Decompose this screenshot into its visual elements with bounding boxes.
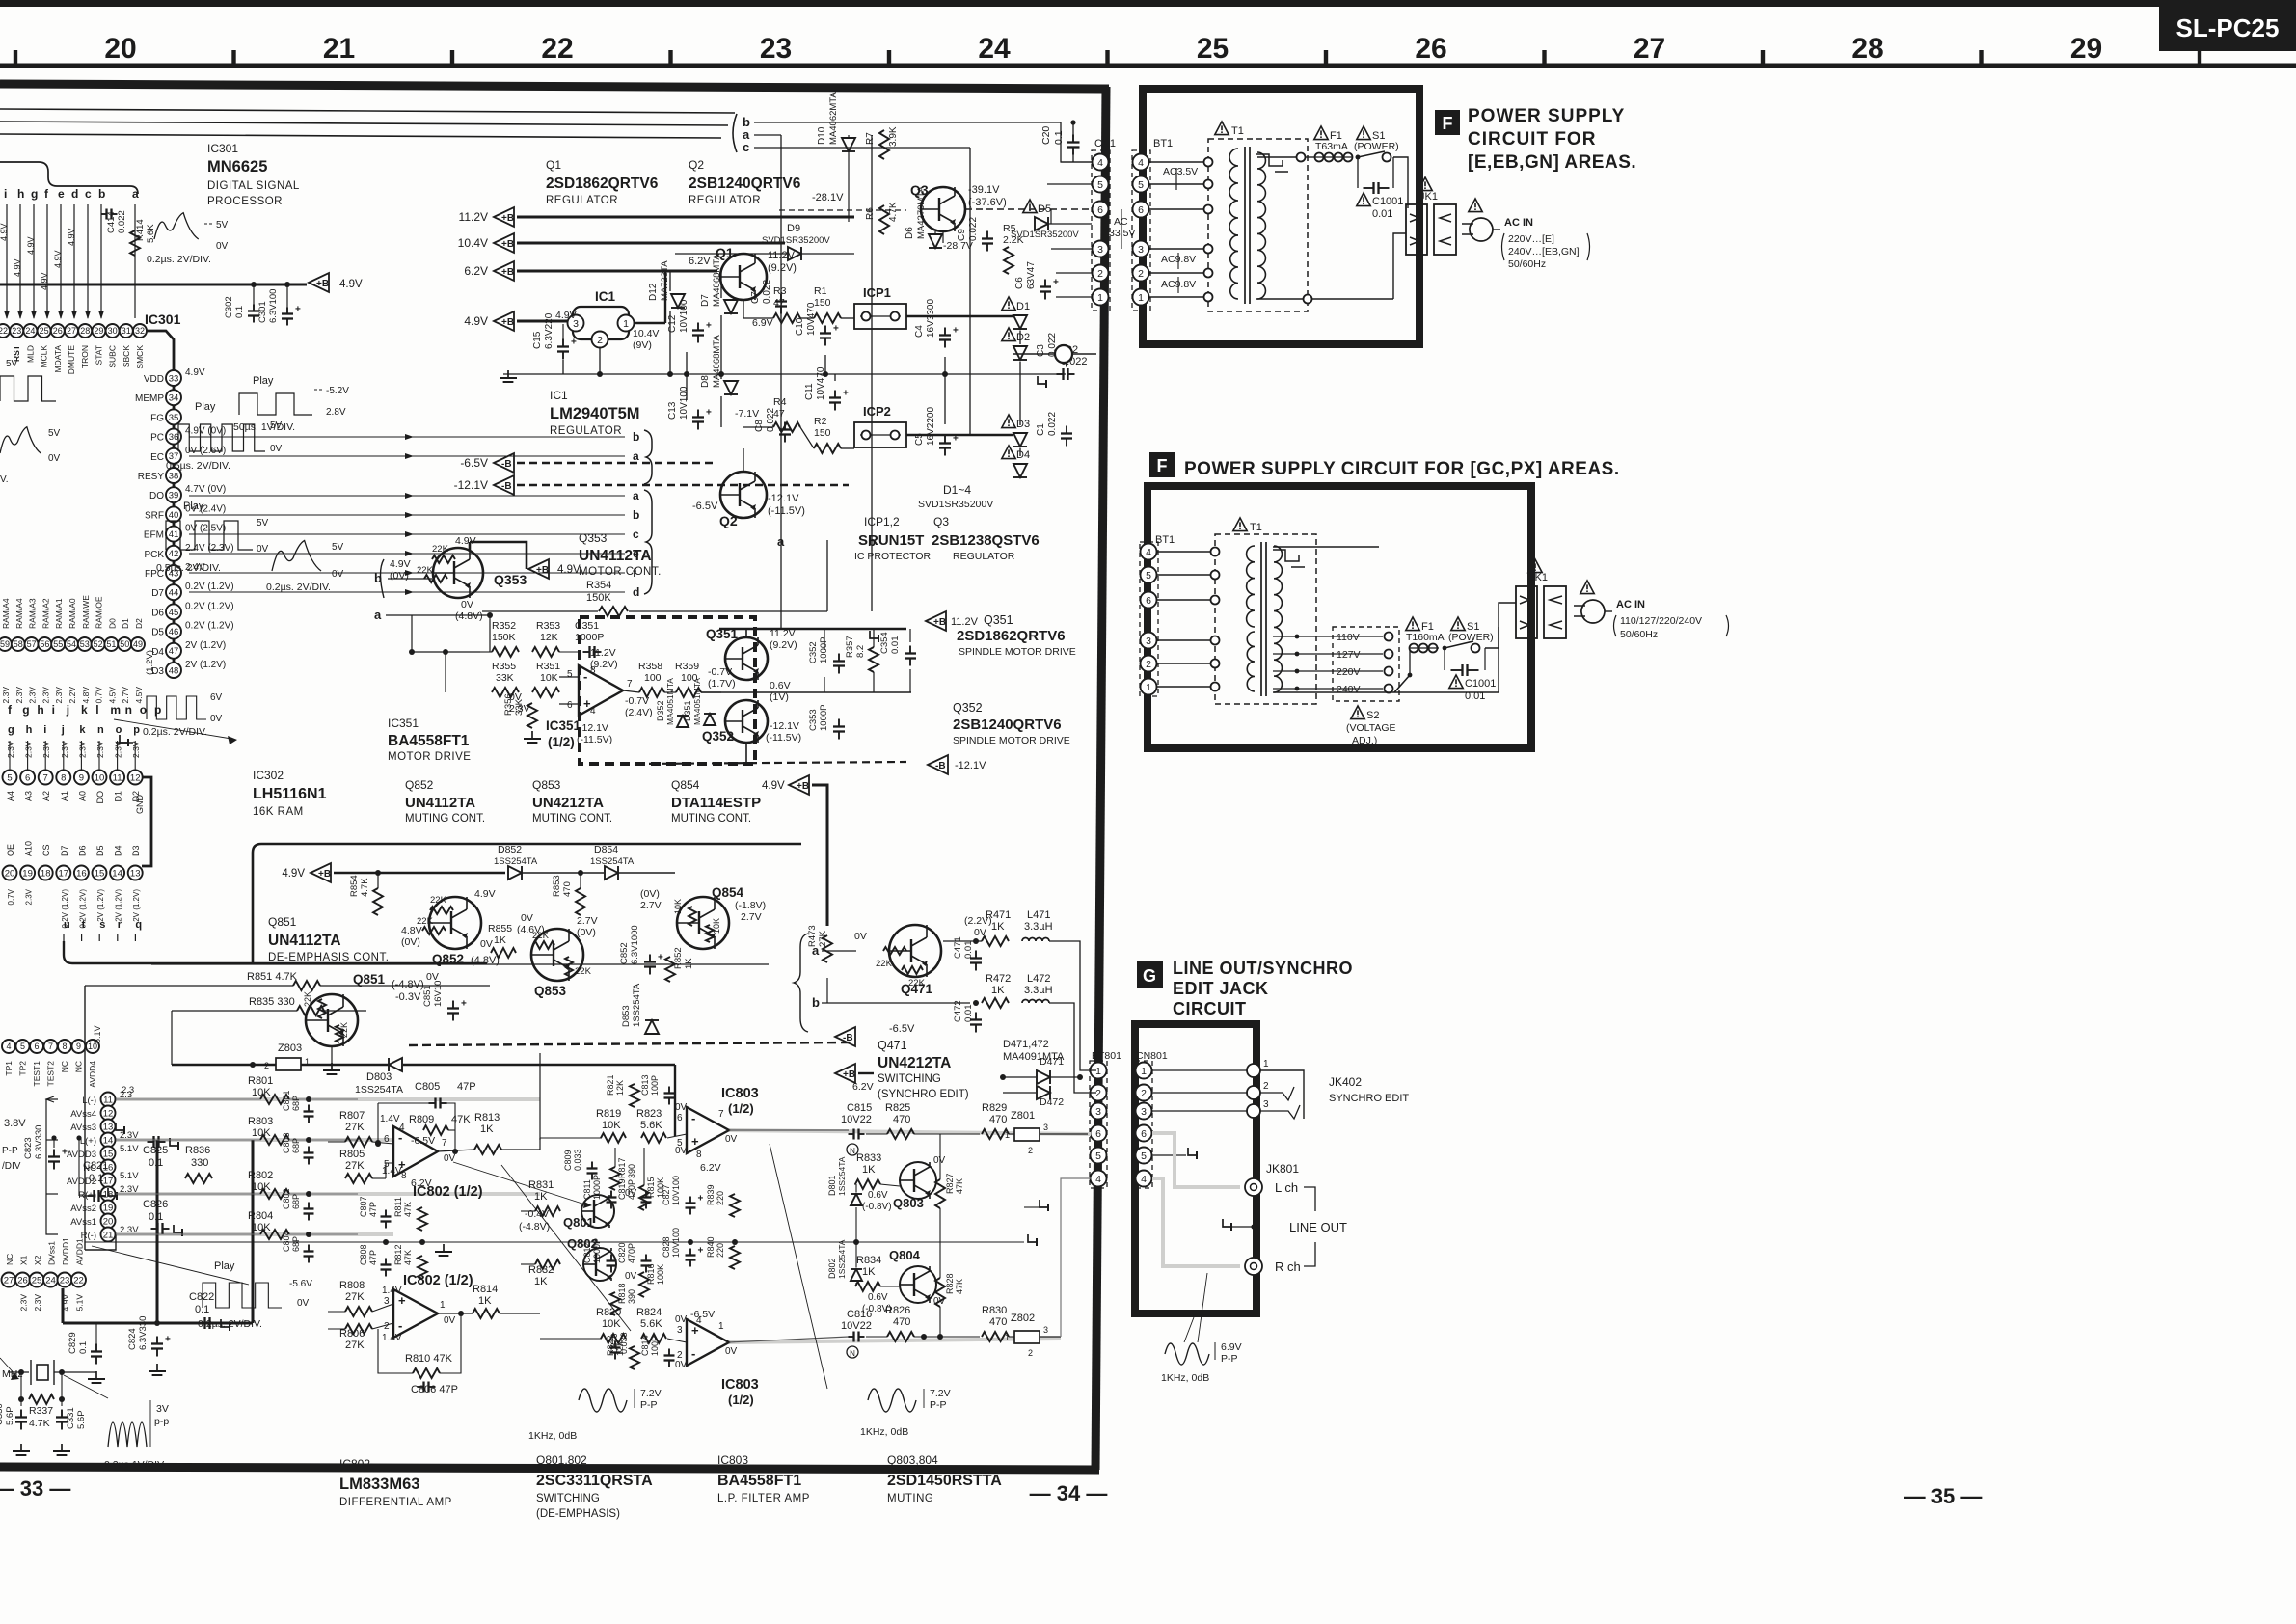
BT1 dashed column 2 — [1140, 542, 1158, 696]
svg-text:UN4112TA: UN4112TA — [579, 548, 652, 564]
svg-text:D5: D5 — [95, 845, 105, 856]
svg-text:CS: CS — [41, 844, 51, 856]
svg-text:2: 2 — [1095, 1088, 1101, 1099]
svg-text:27K: 27K — [345, 1340, 365, 1351]
BT801 wires left — [1091, 1069, 1096, 1071]
Q804 — [900, 1266, 936, 1303]
svg-text:0.2µs. 2V/DIV.: 0.2µs. 2V/DIV. — [266, 582, 331, 593]
svg-text:C808: C808 — [359, 1244, 368, 1265]
IC301 pin 45 — [166, 604, 181, 619]
svg-text:Q803: Q803 — [893, 1196, 924, 1210]
svg-text:2.8V: 2.8V — [326, 407, 346, 418]
svg-text:C1001: C1001 — [1465, 678, 1496, 690]
wire — [1149, 296, 1208, 298]
power box 1 frame — [1143, 89, 1419, 344]
svg-text:X1: X1 — [19, 1255, 29, 1265]
svg-text:27K: 27K — [345, 1291, 365, 1303]
svg-text:55: 55 — [53, 639, 63, 649]
svg-text:DVDD1: DVDD1 — [61, 1237, 70, 1265]
bus under RAM2 — [84, 985, 86, 987]
svg-text:+B: +B — [501, 317, 514, 328]
svg-text:3.9K: 3.9K — [888, 126, 899, 147]
svg-text:+: + — [698, 1194, 704, 1204]
IC pin 14 — [101, 1133, 116, 1148]
wire — [1149, 272, 1208, 274]
svg-text:C7: C7 — [750, 291, 761, 304]
IC1 pin1 — [618, 315, 635, 332]
svg-text:D10: D10 — [817, 126, 827, 145]
svg-text:ADJ.): ADJ.) — [1352, 735, 1377, 746]
svg-text:0.022: 0.022 — [1047, 412, 1058, 436]
main border right — [1095, 87, 1106, 1470]
svg-text:C823: C823 — [23, 1137, 34, 1159]
svg-text:7: 7 — [718, 1109, 724, 1120]
svg-text:R811: R811 — [393, 1197, 403, 1217]
svg-text:+B: +B — [501, 239, 514, 250]
svg-text:2.3V: 2.3V — [24, 741, 34, 758]
svg-text:6: 6 — [1095, 1128, 1101, 1140]
svg-text:RAM/A2: RAM/A2 — [41, 598, 50, 629]
svg-text:5.6P: 5.6P — [76, 1410, 87, 1429]
svg-text:L471: L471 — [1027, 909, 1050, 921]
svg-text:6: 6 — [1138, 204, 1144, 216]
wire opamp in — [573, 691, 579, 693]
Q353 4.9V tri — [528, 559, 549, 579]
svg-text:BA4558FT1: BA4558FT1 — [388, 733, 470, 749]
svg-text:-5.2V: -5.2V — [326, 386, 349, 396]
svg-text:R828: R828 — [945, 1273, 955, 1294]
signal brace2 — [644, 490, 652, 594]
label G block — [1137, 961, 1163, 988]
svg-text:2SD1450RSTTA: 2SD1450RSTTA — [887, 1473, 1002, 1489]
wire — [27, 741, 29, 770]
svg-text:57: 57 — [27, 639, 37, 649]
svg-text:C801: C801 — [282, 1090, 291, 1111]
IC pin 22 — [71, 1273, 86, 1287]
transistor Q353 — [433, 548, 483, 598]
wire to JK1 2 — [1485, 603, 1516, 648]
svg-text:47P: 47P — [368, 1250, 378, 1265]
svg-text:17: 17 — [103, 1176, 114, 1186]
annotation diagonal 3 — [453, 1162, 588, 1205]
svg-text:5.6K: 5.6K — [640, 1120, 662, 1131]
IC301 pin 47 — [166, 643, 181, 659]
svg-text:j: j — [66, 703, 69, 717]
svg-text:2SD1862QRTV6: 2SD1862QRTV6 — [957, 628, 1066, 644]
svg-text:2.3V: 2.3V — [41, 687, 50, 704]
svg-text:R824: R824 — [636, 1307, 662, 1318]
svg-text:(9.2V): (9.2V) — [590, 659, 618, 670]
screen trace g1 — [1152, 1133, 1240, 1187]
svg-text:+: + — [953, 326, 959, 337]
svg-text:5.6K: 5.6K — [146, 224, 156, 243]
T1(2) label — [1233, 518, 1247, 531]
svg-text:(9.2V): (9.2V) — [768, 262, 797, 274]
connector BT1(2) pin 4 — [1141, 544, 1157, 560]
svg-text:470: 470 — [562, 881, 573, 897]
svg-text:27: 27 — [4, 1275, 14, 1286]
wire c-CN1 — [1061, 122, 1092, 162]
G box frame — [1135, 1024, 1256, 1313]
svg-text:1: 1 — [1263, 1059, 1269, 1069]
ruler tick — [1324, 50, 1328, 66]
IC301 pin 23 — [10, 324, 23, 338]
IC pin 12 — [101, 1106, 116, 1121]
screen trace out2 — [729, 1339, 1061, 1342]
wire — [63, 741, 65, 770]
svg-text:+: + — [698, 1246, 704, 1257]
Q803 — [900, 1162, 936, 1199]
wire b-BT801 — [1068, 941, 1091, 1070]
svg-text:0.5µs. 2V/DIV.: 0.5µs. 2V/DIV. — [156, 562, 221, 574]
svg-text:R808: R808 — [339, 1280, 365, 1291]
svg-text:1.4V: 1.4V — [382, 1286, 402, 1296]
svg-text:10V100: 10V100 — [671, 1176, 681, 1205]
svg-text:BT1: BT1 — [1153, 138, 1173, 149]
wire Q351 collector — [745, 629, 747, 637]
svg-text:C805: C805 — [415, 1081, 440, 1093]
svg-text:10.4V: 10.4V — [458, 236, 488, 250]
svg-text:2.3V: 2.3V — [14, 687, 24, 704]
transformer tap 2 — [1211, 571, 1220, 580]
connector CN1 pin 1 — [1093, 289, 1109, 306]
svg-text:470P: 470P — [627, 1179, 636, 1200]
svg-text:D351: D351 — [683, 700, 692, 721]
svg-text:Q803,804: Q803,804 — [887, 1453, 938, 1467]
svg-text:(-11.5V): (-11.5V) — [766, 732, 801, 744]
diode D2 — [1002, 328, 1015, 341]
IC302 pin 9 — [74, 771, 89, 785]
wire Q352 collector dashed — [745, 743, 747, 762]
transformer tap — [1204, 269, 1213, 278]
svg-text:D7: D7 — [60, 845, 69, 856]
connector BT801 pin 3 — [1091, 1103, 1107, 1120]
svg-text:REGULATOR: REGULATOR — [953, 551, 1015, 562]
annotation arrows — [1184, 1317, 1194, 1342]
svg-text:2: 2 — [384, 1321, 390, 1332]
svg-text:35: 35 — [169, 413, 179, 423]
svg-text:C802: C802 — [282, 1188, 291, 1209]
Z803 bus — [172, 1064, 276, 1066]
svg-text:220: 220 — [716, 1191, 725, 1205]
IC301 pin 51 — [104, 637, 118, 651]
svg-text:ICP1,2: ICP1,2 — [864, 515, 900, 528]
wire pin6 to Lch — [1152, 1133, 1240, 1187]
svg-text:R853: R853 — [552, 875, 562, 897]
svg-text:Q854: Q854 — [712, 885, 744, 900]
svg-text:u: u — [64, 919, 70, 931]
svg-text:C471: C471 — [953, 936, 963, 959]
svg-text:+: + — [706, 408, 712, 419]
transformer primary winding — [1229, 149, 1238, 235]
svg-text:29: 29 — [2070, 33, 2102, 65]
svg-text:3: 3 — [1097, 244, 1103, 256]
svg-text:REGULATOR: REGULATOR — [689, 195, 761, 206]
svg-text:5: 5 — [1141, 1150, 1147, 1162]
svg-text:(VOLTAGE: (VOLTAGE — [1346, 722, 1396, 734]
svg-text:0.7V: 0.7V — [7, 888, 15, 905]
Q854 resistors — [689, 907, 696, 926]
svg-text:10K: 10K — [540, 672, 558, 684]
svg-text:-6.5V: -6.5V — [460, 456, 488, 470]
transformer tap 2 — [1211, 596, 1220, 605]
svg-text:26: 26 — [53, 326, 63, 336]
ruler tick — [2198, 50, 2201, 66]
top edge bar — [0, 0, 2296, 7]
svg-text:2.3V: 2.3V — [1, 687, 11, 704]
svg-text:27: 27 — [1634, 33, 1665, 65]
svg-text:4.9V: 4.9V — [474, 888, 496, 900]
svg-text:MA4051MTA: MA4051MTA — [665, 678, 675, 725]
svg-text:n: n — [125, 703, 132, 717]
svg-text:C816: C816 — [847, 1309, 872, 1320]
svg-text:p-p: p-p — [154, 1416, 169, 1427]
svg-text:MA4270MTA: MA4270MTA — [916, 186, 927, 239]
svg-text:R358: R358 — [638, 661, 662, 672]
svg-text:Q853: Q853 — [532, 778, 561, 792]
svg-text:UN4212TA: UN4212TA — [878, 1055, 951, 1071]
svg-text:R801: R801 — [248, 1075, 273, 1087]
label F2 block — [1149, 452, 1175, 477]
svg-text:RAM/A4: RAM/A4 — [14, 598, 24, 629]
svg-text:6.3V330: 6.3V330 — [138, 1316, 149, 1350]
svg-text:11: 11 — [113, 772, 122, 783]
svg-text:(-4.8V): (-4.8V) — [519, 1221, 550, 1232]
svg-text:C15: C15 — [532, 331, 543, 349]
svg-text:R826: R826 — [885, 1305, 910, 1316]
spindle +B — [926, 611, 946, 631]
svg-text:IC PROTECTOR: IC PROTECTOR — [854, 551, 932, 562]
connector CN801 pin 4 — [1136, 1171, 1152, 1187]
Q471 res — [883, 947, 906, 955]
svg-text:8: 8 — [401, 1171, 407, 1181]
CN801 dashed column — [1135, 1061, 1152, 1188]
svg-text:23: 23 — [12, 326, 21, 336]
connector BT1 pin 4 — [1133, 154, 1149, 171]
svg-text:AVss4: AVss4 — [70, 1109, 96, 1120]
svg-text:27: 27 — [67, 326, 76, 336]
svg-text:5V: 5V — [216, 220, 229, 230]
IC1 pin3 — [568, 315, 584, 332]
svg-text:X2: X2 — [33, 1255, 42, 1265]
big sine — [108, 1422, 147, 1447]
svg-text:24: 24 — [45, 1275, 56, 1286]
IC302 pin 5 — [3, 771, 17, 785]
svg-text:6.2V: 6.2V — [689, 256, 711, 267]
svg-text:R830: R830 — [982, 1305, 1007, 1316]
svg-text:D8: D8 — [700, 375, 711, 388]
svg-text:ICP1: ICP1 — [863, 285, 891, 300]
svg-text:12K: 12K — [615, 1340, 625, 1356]
svg-text:CN801: CN801 — [1136, 1050, 1168, 1062]
svg-text:MUTING: MUTING — [887, 1493, 933, 1504]
wire — [9, 741, 11, 770]
wire — [44, 741, 46, 770]
svg-text:SRF: SRF — [145, 510, 164, 521]
svg-text:IC802 (1/2): IC802 (1/2) — [413, 1184, 483, 1200]
svg-text:(9.2V): (9.2V) — [770, 639, 797, 651]
svg-text:D2: D2 — [134, 618, 144, 629]
svg-text:NC: NC — [60, 1061, 69, 1072]
svg-text:0.7V: 0.7V — [95, 687, 104, 704]
transformer T1(2) box — [1215, 534, 1316, 704]
svg-text:47: 47 — [773, 408, 785, 420]
svg-text:D12: D12 — [648, 283, 659, 301]
svg-text:D7: D7 — [151, 588, 164, 599]
IC1 body — [573, 307, 629, 339]
svg-text:h: h — [26, 724, 33, 736]
svg-text:A3: A3 — [24, 791, 34, 801]
svg-text:7: 7 — [627, 679, 633, 690]
resistor R6 — [879, 205, 889, 234]
svg-text:3: 3 — [1138, 244, 1144, 256]
svg-text:50/60Hz: 50/60Hz — [1508, 258, 1546, 270]
svg-text:47P: 47P — [368, 1202, 378, 1217]
label F1 block — [1435, 110, 1460, 135]
thermal fuse — [1256, 154, 1283, 166]
transistor Q851 — [306, 994, 358, 1046]
svg-text:470: 470 — [989, 1316, 1007, 1328]
svg-text:390: 390 — [627, 1289, 636, 1304]
Q851 gnd — [331, 1046, 333, 1066]
4.9V rail — [0, 284, 307, 286]
svg-text:IC1: IC1 — [550, 389, 568, 402]
svg-text:59: 59 — [0, 639, 10, 649]
IC301 pin 44 — [166, 584, 181, 600]
signal wire e — [189, 553, 625, 555]
svg-text:d: d — [71, 187, 78, 201]
wire to Z803 area — [826, 978, 828, 1003]
svg-text:C12: C12 — [667, 314, 678, 333]
svg-text:3: 3 — [1146, 636, 1151, 647]
svg-text:MCLK: MCLK — [40, 345, 49, 368]
line out bracket — [1304, 1187, 1315, 1211]
resistor R7 — [879, 130, 889, 159]
jack JK402 terminal 1 — [1152, 1069, 1248, 1071]
svg-text:52: 52 — [94, 639, 103, 649]
svg-text:6: 6 — [25, 772, 30, 783]
svg-text:[E,EB,GN] AREAS.: [E,EB,GN] AREAS. — [1468, 152, 1636, 173]
transistor Q853 — [531, 929, 583, 981]
RAM bus — [142, 777, 151, 866]
svg-text:0.1: 0.1 — [89, 1173, 103, 1184]
svg-text:0.5µs. 2V/DIV.: 0.5µs. 2V/DIV. — [166, 460, 230, 472]
svg-text:D6: D6 — [77, 845, 87, 856]
svg-text:4.9V: 4.9V — [185, 367, 205, 378]
svg-text:C828: C828 — [662, 1236, 671, 1258]
connector BT1(2) pin 2 — [1141, 656, 1157, 672]
svg-text:R851 4.7K: R851 4.7K — [247, 971, 298, 983]
svg-text:D9: D9 — [787, 223, 800, 234]
svg-text:F: F — [1157, 456, 1168, 475]
svg-text:12K: 12K — [615, 1080, 625, 1096]
svg-text:-B: -B — [843, 1033, 853, 1043]
svg-text:1: 1 — [1005, 1130, 1010, 1140]
wire pin5 gnd — [1152, 1154, 1186, 1156]
svg-text:R472: R472 — [986, 973, 1011, 985]
svg-text:i: i — [52, 703, 55, 717]
svg-text:TRON: TRON — [80, 345, 90, 368]
svg-text:DTA114ESTP: DTA114ESTP — [671, 795, 761, 811]
svg-text:14: 14 — [112, 868, 122, 879]
svg-text:2: 2 — [597, 335, 603, 346]
svg-text:P-P: P-P — [2, 1146, 18, 1156]
svg-text:(POWER): (POWER) — [1354, 141, 1399, 152]
svg-text:C1001: C1001 — [1372, 196, 1403, 207]
svg-text:0.1: 0.1 — [78, 1341, 89, 1354]
svg-text:1K: 1K — [478, 1295, 492, 1307]
svg-text:i: i — [4, 187, 7, 201]
IC pin 23 — [58, 1273, 72, 1287]
secondary top lead 2 — [1273, 546, 1379, 548]
svg-text:50µs. 1V/DIV.: 50µs. 1V/DIV. — [233, 421, 295, 433]
svg-text:50: 50 — [120, 639, 129, 649]
svg-text:DO: DO — [149, 491, 164, 501]
svg-text:11: 11 — [103, 1095, 113, 1105]
svg-text:PROCESSOR: PROCESSOR — [207, 196, 283, 207]
IC302 pin 20 — [3, 866, 17, 880]
connector CN1 pin 6 — [1093, 202, 1109, 218]
svg-text:D1: D1 — [121, 618, 130, 629]
connector BT1(2) pin 3 — [1141, 633, 1157, 649]
svg-text:33.5V: 33.5V — [1109, 228, 1135, 239]
svg-text:39: 39 — [169, 491, 179, 501]
svg-text:D854: D854 — [594, 844, 618, 855]
jack JK402 terminal 3 — [1152, 1110, 1248, 1112]
ruler tick — [1542, 50, 1546, 66]
connector BT1 pin 1 — [1133, 289, 1149, 306]
svg-text:N: N — [850, 1147, 855, 1155]
IC301 pin 36 — [166, 429, 181, 445]
svg-text:C809: C809 — [563, 1150, 573, 1171]
svg-text:LM833M63: LM833M63 — [339, 1475, 419, 1493]
svg-text:16K RAM: 16K RAM — [253, 806, 304, 818]
jack JK402 symbol — [1260, 1070, 1304, 1119]
svg-text:4.9V: 4.9V — [555, 310, 577, 321]
IC301 pin 46 — [166, 624, 181, 639]
svg-text:R821: R821 — [606, 1074, 615, 1096]
wire IC1 out — [635, 322, 665, 324]
connector BT801 pin 1 — [1091, 1063, 1107, 1079]
svg-text:j: j — [61, 724, 65, 736]
svg-text:22K: 22K — [303, 991, 312, 1007]
svg-text:SUBC: SUBC — [108, 345, 118, 368]
screen trace R- — [116, 1232, 393, 1236]
IC302 pin 13 — [128, 866, 143, 880]
svg-text:C819: C819 — [617, 1178, 627, 1200]
svg-text:RAM/A0: RAM/A0 — [68, 598, 77, 629]
svg-text:-12.1V: -12.1V — [770, 720, 799, 732]
svg-text:47K: 47K — [451, 1114, 471, 1125]
motor dashed box — [580, 617, 755, 764]
svg-text:+: + — [691, 1134, 699, 1149]
wire — [1149, 183, 1208, 185]
svg-text:LINE OUT/SYNCHRO: LINE OUT/SYNCHRO — [1173, 959, 1353, 978]
IC302 pin 11 — [110, 771, 124, 785]
svg-text:5: 5 — [1138, 179, 1144, 191]
svg-text:42: 42 — [169, 549, 179, 559]
connector BT801 pin 5 — [1091, 1148, 1107, 1164]
svg-text:+: + — [295, 305, 301, 315]
svg-text:MUTING CONT.: MUTING CONT. — [405, 813, 485, 825]
svg-text:30: 30 — [108, 326, 118, 336]
svg-text:AVss2: AVss2 — [70, 1204, 96, 1214]
svg-text:-28.1V: -28.1V — [812, 192, 844, 203]
IC302 pin 10 — [93, 771, 107, 785]
svg-text:22K: 22K — [876, 959, 893, 969]
svg-text:3V: 3V — [156, 1403, 169, 1415]
svg-text:SYNCHRO EDIT: SYNCHRO EDIT — [1329, 1093, 1409, 1104]
